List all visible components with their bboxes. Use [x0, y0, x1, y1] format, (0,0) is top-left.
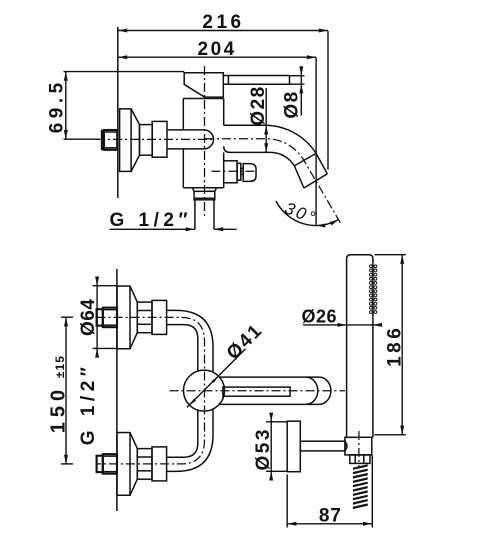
svg-text:87: 87: [319, 506, 342, 527]
svg-text:G 1/2″: G 1/2″: [78, 363, 99, 446]
svg-text:Ø28: Ø28: [248, 85, 269, 125]
svg-text:Ø53: Ø53: [253, 427, 274, 470]
svg-text:150: 150: [47, 385, 69, 433]
svg-text:Ø64: Ø64: [78, 299, 99, 336]
svg-text:30°: 30°: [282, 198, 320, 228]
svg-text:204: 204: [197, 39, 236, 60]
svg-text:69.5: 69.5: [46, 78, 67, 133]
svg-text:G 1/2″: G 1/2″: [110, 210, 193, 231]
svg-text:Ø8: Ø8: [282, 90, 303, 118]
svg-text:216: 216: [202, 12, 244, 33]
svg-text:186: 186: [385, 325, 406, 367]
svg-text:Ø41: Ø41: [223, 320, 267, 364]
svg-text:Ø26: Ø26: [302, 307, 338, 327]
svg-text:±15: ±15: [53, 355, 67, 378]
